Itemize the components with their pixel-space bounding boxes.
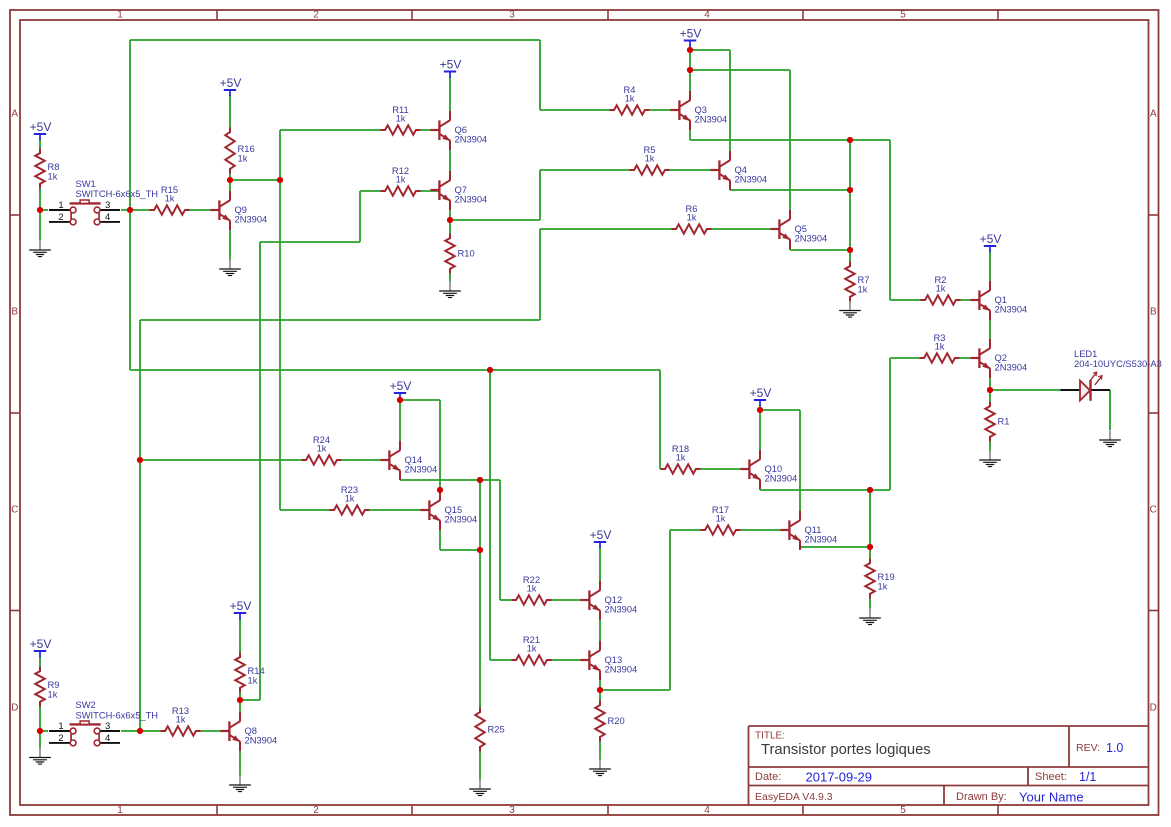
svg-text:2: 2 bbox=[58, 733, 63, 744]
svg-text:C: C bbox=[1150, 505, 1157, 516]
svg-text:R25: R25 bbox=[488, 725, 505, 735]
svg-text:LED1: LED1 bbox=[1074, 349, 1097, 359]
svg-text:1k: 1k bbox=[645, 154, 655, 164]
svg-text:2N3904: 2N3904 bbox=[405, 465, 438, 475]
svg-text:+5V: +5V bbox=[590, 528, 612, 542]
svg-text:TITLE:: TITLE: bbox=[755, 731, 785, 742]
svg-text:C: C bbox=[11, 505, 18, 516]
svg-text:2017-09-29: 2017-09-29 bbox=[806, 770, 873, 785]
svg-text:+5V: +5V bbox=[680, 27, 702, 41]
svg-text:1k: 1k bbox=[176, 715, 186, 725]
svg-text:2N3904: 2N3904 bbox=[735, 175, 768, 185]
svg-text:R1: R1 bbox=[998, 417, 1010, 427]
svg-text:1k: 1k bbox=[625, 94, 635, 104]
svg-text:2N3904: 2N3904 bbox=[605, 605, 638, 615]
svg-text:Q11: Q11 bbox=[805, 525, 822, 535]
svg-text:1k: 1k bbox=[687, 213, 697, 223]
svg-text:1k: 1k bbox=[317, 444, 327, 454]
svg-text:2N3904: 2N3904 bbox=[795, 234, 828, 244]
svg-text:2N3904: 2N3904 bbox=[235, 215, 268, 225]
svg-text:R8: R8 bbox=[48, 162, 60, 172]
svg-text:+5V: +5V bbox=[30, 120, 52, 134]
svg-text:Q1: Q1 bbox=[995, 295, 1007, 305]
svg-text:2N3904: 2N3904 bbox=[765, 474, 798, 484]
svg-text:1k: 1k bbox=[676, 453, 686, 463]
svg-text:2: 2 bbox=[58, 212, 63, 223]
svg-text:1k: 1k bbox=[858, 285, 868, 295]
svg-text:Drawn By:: Drawn By: bbox=[956, 791, 1007, 803]
svg-text:1k: 1k bbox=[527, 584, 537, 594]
svg-text:Q13: Q13 bbox=[605, 655, 623, 665]
svg-text:1: 1 bbox=[117, 805, 123, 816]
svg-text:2: 2 bbox=[313, 10, 319, 21]
svg-text:A: A bbox=[1150, 109, 1157, 120]
svg-text:1k: 1k bbox=[165, 194, 175, 204]
svg-text:R10: R10 bbox=[458, 249, 475, 259]
svg-text:+5V: +5V bbox=[220, 76, 242, 90]
svg-text:1k: 1k bbox=[48, 690, 58, 700]
svg-text:Q12: Q12 bbox=[605, 595, 623, 605]
svg-text:5: 5 bbox=[900, 805, 906, 816]
svg-text:3: 3 bbox=[509, 10, 515, 21]
svg-text:1k: 1k bbox=[935, 342, 945, 352]
svg-text:1k: 1k bbox=[345, 494, 355, 504]
svg-text:D: D bbox=[1150, 703, 1157, 714]
svg-text:Q3: Q3 bbox=[695, 105, 707, 115]
svg-text:4: 4 bbox=[105, 733, 110, 744]
svg-text:1k: 1k bbox=[396, 175, 406, 185]
svg-text:+5V: +5V bbox=[230, 599, 252, 613]
svg-text:1.0: 1.0 bbox=[1106, 741, 1123, 755]
svg-text:1k: 1k bbox=[527, 644, 537, 654]
svg-text:+5V: +5V bbox=[30, 637, 52, 651]
svg-text:SW2: SW2 bbox=[76, 700, 96, 710]
svg-text:2N3904: 2N3904 bbox=[995, 363, 1028, 373]
svg-text:1: 1 bbox=[58, 200, 63, 211]
svg-text:Your Name: Your Name bbox=[1019, 790, 1084, 805]
svg-text:Transistor portes logiques: Transistor portes logiques bbox=[761, 742, 931, 758]
svg-text:R19: R19 bbox=[878, 572, 895, 582]
svg-text:1k: 1k bbox=[248, 676, 258, 686]
svg-text:SW1: SW1 bbox=[76, 179, 96, 189]
svg-text:2N3904: 2N3904 bbox=[245, 736, 278, 746]
svg-text:+5V: +5V bbox=[440, 58, 462, 72]
svg-text:1k: 1k bbox=[396, 114, 406, 124]
svg-text:Date:: Date: bbox=[755, 771, 781, 783]
svg-text:R16: R16 bbox=[238, 144, 255, 154]
svg-text:SWITCH-6x6x5_TH: SWITCH-6x6x5_TH bbox=[76, 189, 159, 199]
svg-text:1k: 1k bbox=[716, 514, 726, 524]
svg-text:Q10: Q10 bbox=[765, 464, 783, 474]
svg-text:Q6: Q6 bbox=[455, 125, 467, 135]
svg-text:SWITCH-6x6x5_TH: SWITCH-6x6x5_TH bbox=[76, 711, 159, 721]
svg-text:1k: 1k bbox=[878, 582, 888, 592]
svg-text:2N3904: 2N3904 bbox=[995, 305, 1028, 315]
svg-text:+5V: +5V bbox=[390, 379, 412, 393]
svg-text:B: B bbox=[1150, 307, 1157, 318]
svg-text:2N3904: 2N3904 bbox=[605, 665, 638, 675]
svg-text:R7: R7 bbox=[858, 275, 870, 285]
svg-text:3: 3 bbox=[105, 721, 110, 732]
svg-text:3: 3 bbox=[105, 200, 110, 211]
svg-text:Q7: Q7 bbox=[455, 185, 467, 195]
svg-text:2N3904: 2N3904 bbox=[445, 515, 478, 525]
svg-text:Q8: Q8 bbox=[245, 726, 257, 736]
svg-text:A: A bbox=[11, 109, 18, 120]
svg-text:3: 3 bbox=[509, 805, 515, 816]
svg-text:R14: R14 bbox=[248, 666, 265, 676]
svg-text:+5V: +5V bbox=[750, 386, 772, 400]
svg-text:EasyEDA V4.9.3: EasyEDA V4.9.3 bbox=[755, 791, 833, 803]
svg-text:5: 5 bbox=[900, 10, 906, 21]
svg-text:Q5: Q5 bbox=[795, 224, 807, 234]
svg-text:1k: 1k bbox=[48, 172, 58, 182]
svg-text:Q9: Q9 bbox=[235, 205, 247, 215]
svg-text:4: 4 bbox=[704, 10, 710, 21]
svg-text:2N3904: 2N3904 bbox=[455, 135, 488, 145]
svg-text:4: 4 bbox=[704, 805, 710, 816]
svg-text:2N3904: 2N3904 bbox=[695, 115, 728, 125]
svg-text:Q15: Q15 bbox=[445, 505, 463, 515]
svg-text:D: D bbox=[11, 703, 18, 714]
svg-text:2N3904: 2N3904 bbox=[805, 535, 838, 545]
svg-text:1: 1 bbox=[117, 10, 123, 21]
svg-text:4: 4 bbox=[105, 212, 110, 223]
svg-text:1k: 1k bbox=[936, 284, 946, 294]
svg-text:R9: R9 bbox=[48, 680, 60, 690]
svg-text:Q4: Q4 bbox=[735, 165, 747, 175]
svg-text:+5V: +5V bbox=[980, 232, 1002, 246]
svg-text:REV:: REV: bbox=[1076, 742, 1100, 754]
svg-text:1k: 1k bbox=[238, 154, 248, 164]
svg-text:204-10UYC/S530-A3: 204-10UYC/S530-A3 bbox=[1074, 359, 1162, 369]
svg-text:Q14: Q14 bbox=[405, 455, 423, 465]
svg-text:Sheet:: Sheet: bbox=[1035, 771, 1067, 783]
svg-text:1/1: 1/1 bbox=[1079, 770, 1096, 784]
svg-text:R20: R20 bbox=[608, 716, 625, 726]
svg-text:2N3904: 2N3904 bbox=[455, 195, 488, 205]
svg-text:B: B bbox=[11, 307, 18, 318]
svg-text:Q2: Q2 bbox=[995, 353, 1007, 363]
svg-text:2: 2 bbox=[313, 805, 319, 816]
svg-text:1: 1 bbox=[58, 721, 63, 732]
